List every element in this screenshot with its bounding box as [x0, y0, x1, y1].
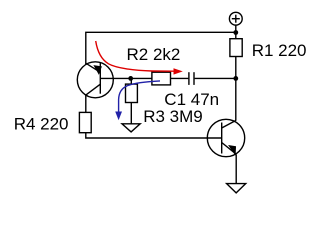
wire Q2 emitter to ground [235, 154, 237, 183]
svg-text:R3 3M9: R3 3M9 [143, 107, 203, 126]
svg-text:R1 220: R1 220 [252, 41, 307, 60]
wire top rail [86, 25, 236, 65]
wire R3 to ground [130, 103, 132, 124]
svg-text:C1 47n: C1 47n [164, 90, 219, 109]
wire R2 to C1 [171, 77, 189, 79]
ground under R3 [122, 124, 140, 132]
resistor R3 [126, 84, 138, 102]
resistor R2 [152, 72, 171, 85]
transistor Q2 [207, 119, 244, 156]
capacitor C1 [189, 72, 194, 85]
annotation red current path arrow [96, 41, 183, 75]
resistor R1 [230, 39, 242, 57]
node junction at R3 [128, 76, 133, 81]
power supply + terminal [229, 12, 242, 25]
svg-text:R2 2k2: R2 2k2 [127, 45, 181, 64]
wire Q1 collector to R4 [85, 95, 87, 112]
svg-text:R4 220: R4 220 [14, 115, 69, 134]
resistor R4 [79, 112, 91, 132]
ground under Q2 [227, 184, 246, 193]
wire junction to R3 [130, 78, 132, 84]
transistor Q1 [77, 62, 113, 98]
node junction at V+ [233, 30, 238, 35]
wire R4 to Q2 base [86, 133, 222, 138]
annotation blue current path arrow [115, 81, 160, 120]
wire C1 to right rail [195, 77, 236, 79]
wire Q1 base [100, 77, 152, 79]
node junction at C1 right [233, 76, 238, 81]
wire right rail [235, 32, 237, 120]
